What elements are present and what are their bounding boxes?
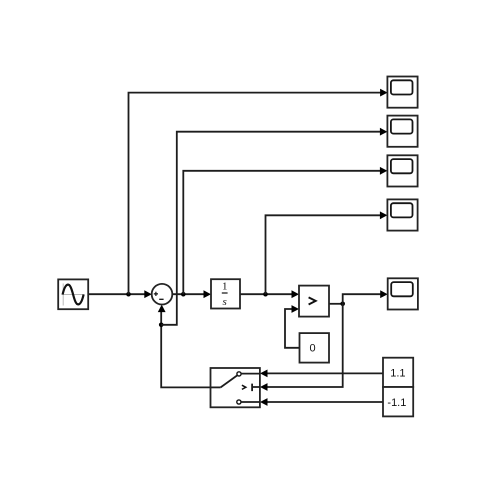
arrowhead into switch input 1 — [260, 370, 268, 378]
junction node E on feedback line — [159, 323, 164, 328]
wire W8b: node E right, up and right to Scope2 — [161, 132, 380, 325]
wire W6: constant 1.1 to switch input 1 — [267, 372, 383, 374]
sum junction — [152, 284, 173, 305]
svg-text:s: s — [223, 296, 227, 308]
arrowhead into relational input 2 — [292, 305, 300, 313]
switch arm diagonal — [221, 375, 238, 387]
arrowhead into integrator — [204, 290, 212, 298]
constant block 1.1 — [383, 358, 413, 387]
integrator block 1/s — [211, 279, 240, 308]
switch top contact lead — [241, 373, 260, 375]
junction node C on integrator output — [263, 292, 268, 297]
svg-text:1: 1 — [222, 281, 228, 293]
sine icon axes (light) — [62, 284, 85, 306]
arrowhead into Scope1 — [380, 89, 388, 97]
wire W3: integrator output to relational operator — [240, 293, 292, 295]
plus sign — [154, 292, 158, 296]
svg-text:-1.1: -1.1 — [387, 397, 406, 409]
scope block Scope5 — [388, 278, 418, 309]
arrowhead into switch input 3 — [260, 398, 268, 406]
switch bottom contact circle — [237, 400, 241, 404]
wire W1: sine output to sum — [88, 293, 145, 295]
wire W5a: node D up and right to Scope5 — [343, 294, 381, 304]
constant block -1.1 — [383, 387, 413, 416]
arrowhead into sum left input — [144, 290, 152, 298]
wire W3b: node C up and right to Scope4 — [266, 215, 381, 294]
scope block Scope3 — [387, 155, 417, 186]
switch bottom contact lead — [241, 401, 260, 403]
arrowhead into Scope2 — [380, 128, 388, 136]
relational operator block > — [299, 286, 329, 317]
wire W2b: node B up and right to Scope3 — [183, 171, 380, 294]
wire W5: relational output — [329, 303, 343, 305]
wire W7: constant -1.1 to switch input 3 — [267, 401, 383, 403]
arrowhead into Scope3 — [380, 167, 388, 175]
wire W5b: node D down and left to switch control input — [267, 304, 343, 387]
scope block Scope1 — [387, 77, 417, 108]
sine wave source block — [58, 279, 88, 309]
switch top contact circle — [237, 372, 241, 376]
wire W4: constant 0 output loops to relational input 2 — [285, 309, 300, 348]
switch output lead — [211, 386, 221, 388]
switch control tick — [252, 384, 260, 392]
arrowhead into sum bottom input — [158, 305, 166, 313]
wire W2: sum output to integrator — [172, 293, 204, 295]
arrowhead into relational input 1 — [292, 290, 300, 298]
arrowhead into Scope4 — [380, 211, 388, 219]
switch threshold label — [242, 385, 246, 389]
constant block 0 — [300, 333, 330, 363]
arrowhead into Scope5 — [380, 290, 388, 298]
svg-text:0: 0 — [310, 343, 316, 355]
junction node B on sum output — [181, 292, 186, 297]
wire W8: switch output left and up to sum bottom input — [161, 312, 210, 388]
junction node D on relational output — [340, 302, 345, 307]
svg-text:1.1: 1.1 — [390, 367, 405, 379]
junction node A on sine output — [126, 292, 131, 297]
wire W1b: node A up and right to Scope1 — [129, 93, 381, 295]
minus sign — [159, 298, 163, 300]
scope block Scope2 — [387, 116, 417, 147]
arrowhead into switch control input — [260, 383, 268, 391]
switch block (mirrored) — [211, 368, 260, 407]
sine icon curve — [63, 285, 84, 305]
scope block Scope4 — [387, 199, 417, 230]
